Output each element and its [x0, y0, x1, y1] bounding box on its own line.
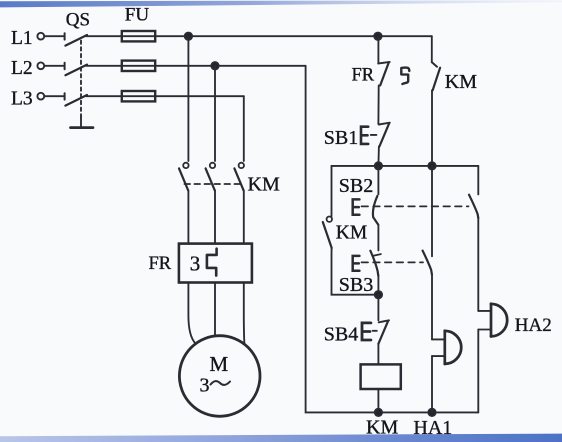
wire L1 to QS — [44, 35, 63, 37]
svg-text:HA2: HA2 — [515, 315, 552, 336]
svg-text:3: 3 — [190, 252, 201, 276]
svg-text:3: 3 — [200, 375, 210, 397]
wire L3 to QS — [44, 95, 63, 97]
linkage SB3 dashed — [362, 261, 424, 263]
fuse FU 2 — [122, 61, 155, 71]
contact KM aux latch (NO) — [327, 217, 332, 222]
contactor KM main linkage dashed — [185, 183, 241, 185]
svg-text:HA1: HA1 — [413, 417, 452, 439]
junction dot control top — [374, 33, 381, 40]
switch QS pole 1 tick — [64, 33, 66, 39]
contact KM aux (top right, NO) — [432, 62, 437, 66]
switch QS handle bar — [71, 126, 94, 129]
thermal relay FR heater box — [179, 244, 252, 283]
svg-text:KM: KM — [445, 71, 477, 93]
svg-text:FR: FR — [352, 66, 375, 86]
contactor KM main pole 1 — [183, 163, 188, 168]
fuse FU 3 — [122, 91, 155, 101]
fuse FU 1 — [122, 31, 155, 41]
switch QS pole 2 blade — [65, 65, 87, 76]
svg-text:SB4: SB4 — [324, 324, 358, 346]
node L2 terminal — [37, 62, 44, 69]
wire L3 row — [86, 95, 244, 97]
switch QS pole 2 tick — [64, 63, 66, 69]
motor tilde — [211, 381, 231, 385]
switch QS linkage dashed — [80, 41, 82, 118]
buzzer HA1 — [432, 338, 445, 340]
wire latch branch — [331, 166, 333, 216]
wire control left rail and bottom bus — [306, 66, 479, 413]
contactor KM main pole 3 — [239, 163, 244, 168]
motor M circle — [179, 336, 260, 417]
pushbutton SB4 (NC) — [377, 295, 379, 321]
junction dot below SB3 — [375, 291, 382, 298]
wire FR to SB1 — [377, 85, 379, 124]
linkage SB2 dashed — [362, 205, 469, 207]
wire phase C down — [243, 96, 245, 161]
svg-text:FR: FR — [149, 254, 172, 274]
buzzer HA2 — [478, 310, 491, 312]
relay FR heater hook symbol — [401, 68, 409, 84]
pushbutton SB3 (NC) — [370, 251, 378, 276]
contact SB2-linked (HA2 branch, NO) — [477, 166, 479, 195]
svg-text:FU: FU — [125, 5, 150, 26]
wire control top branch down — [431, 36, 433, 62]
junction dot main/SB1 — [375, 162, 382, 169]
thermal relay FR heater symbol — [207, 249, 217, 276]
wire motor lead right — [243, 283, 246, 344]
svg-text:KM: KM — [248, 174, 280, 196]
wire L1 row — [86, 35, 432, 37]
wire phase A down — [187, 36, 189, 161]
wire horizontal node row — [332, 165, 479, 167]
relay contact FR (NC) — [377, 36, 379, 62]
svg-text:QS: QS — [66, 10, 90, 31]
svg-text:L1: L1 — [11, 28, 33, 49]
node L1 terminal — [37, 33, 44, 40]
contactor KM main pole 2 — [210, 163, 215, 168]
switch QS pole 3 tick — [64, 93, 66, 99]
top banner — [0, 0, 562, 7]
svg-text:SB3: SB3 — [339, 274, 373, 296]
bottom banner — [0, 434, 562, 442]
wire motor lead left — [188, 283, 195, 344]
junction dot L1/control — [185, 33, 192, 40]
junction dot coil/bus — [375, 409, 382, 416]
switch QS pole 3 blade — [65, 95, 87, 106]
svg-text:L3: L3 — [11, 88, 33, 109]
wire motor lead mid — [214, 283, 216, 336]
svg-text:KM: KM — [366, 417, 398, 439]
contact SB3-linked (HA1 branch, NC) — [431, 166, 433, 256]
svg-text:M: M — [210, 352, 229, 376]
wire L2 row — [86, 65, 306, 67]
junction dot HA1 branch top — [428, 162, 435, 169]
pushbutton SB2 (NO start) — [377, 166, 379, 194]
wire L2 to QS — [44, 65, 63, 67]
svg-text:SB2: SB2 — [339, 175, 373, 197]
switch QS linkage stub — [80, 117, 82, 127]
junction dot L2/control — [211, 62, 218, 69]
svg-text:L2: L2 — [11, 58, 33, 79]
wire phase B down — [214, 66, 216, 161]
wire latch branch bottom — [332, 248, 379, 295]
svg-text:KM: KM — [336, 222, 367, 243]
junction dot HA1/bus — [428, 409, 435, 416]
switch QS pole 1 blade — [65, 35, 87, 46]
svg-text:SB1: SB1 — [324, 127, 358, 149]
node L3 terminal — [37, 93, 44, 100]
pushbutton SB1 (NC stop) — [361, 127, 368, 144]
coil KM — [361, 364, 401, 389]
